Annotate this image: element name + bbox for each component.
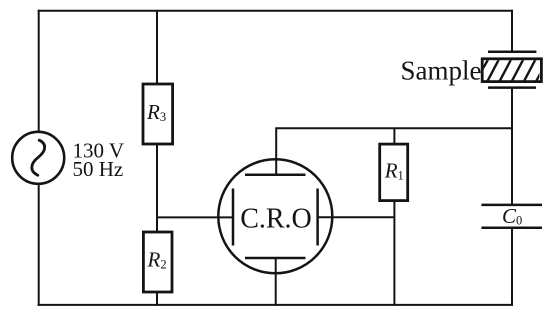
wire between R3 and R2 xyxy=(156,143,158,232)
wire bottom rail xyxy=(38,304,513,306)
wire top rail xyxy=(38,10,513,12)
wire node to CRO left plate xyxy=(157,216,234,218)
sample hatched dielectric box xyxy=(482,59,541,82)
svg-text:C.R.O: C.R.O xyxy=(240,203,312,234)
wire below R2 xyxy=(156,291,158,306)
svg-text:Sample: Sample xyxy=(401,55,482,85)
wire CRO right plate to R1 branch xyxy=(318,216,395,218)
wire left rail upper xyxy=(38,10,40,132)
resistor R2 xyxy=(143,232,172,292)
wire CRO bottom plate to bottom rail xyxy=(275,258,277,306)
AC source sine wave xyxy=(32,140,45,175)
wire right rail upper xyxy=(511,10,513,52)
svg-text:50 Hz: 50 Hz xyxy=(73,157,124,181)
wire R1 top lead xyxy=(393,128,395,143)
resistor R1 xyxy=(380,144,408,201)
CRO left deflection plate xyxy=(232,189,235,246)
wire R1 bottom lead to bottom rail xyxy=(393,202,395,306)
sample capacitor bottom plate xyxy=(488,86,536,89)
resistor R3 xyxy=(143,84,173,144)
AC source V1 circle xyxy=(12,132,64,184)
wire left rail lower xyxy=(38,184,40,306)
capacitor C0 bottom plate xyxy=(481,227,542,230)
wire branch R3 top xyxy=(156,11,158,84)
wire CRO top plate to horizontal feed xyxy=(276,128,512,175)
CRO top deflection plate xyxy=(245,174,306,177)
CRO bottom deflection plate xyxy=(245,257,306,260)
svg-text:C0: C0 xyxy=(502,204,522,228)
oscilloscope U1 circle xyxy=(218,159,332,273)
sample capacitor top plate xyxy=(488,51,536,54)
capacitor C0 top plate xyxy=(481,204,542,207)
wire right rail middle xyxy=(511,87,513,205)
sample hatch lines xyxy=(473,56,549,85)
wire right rail lower xyxy=(511,228,513,306)
CRO right deflection plate xyxy=(316,189,319,246)
